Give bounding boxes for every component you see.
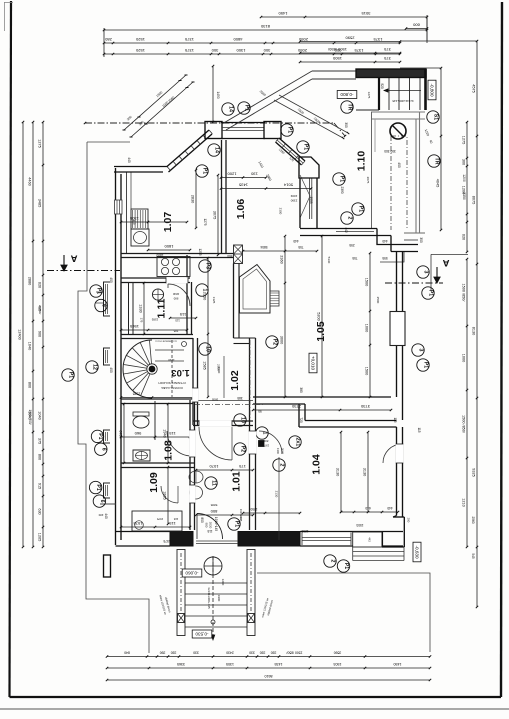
svg-text:115: 115 [175,319,180,323]
svg-text:3730: 3730 [360,404,370,409]
svg-text:1200: 1200 [462,174,466,182]
svg-text:375: 375 [383,56,390,61]
svg-text:1275: 1275 [38,139,42,147]
svg-text:300: 300 [462,159,466,165]
dim chain [243,250,317,252]
svg-text:960: 960 [134,431,141,436]
svg-text:800: 800 [210,509,217,514]
svg-text:P1: P1 [96,288,102,294]
svg-text:P1: P1 [303,144,309,150]
svg-text:115: 115 [169,521,176,526]
svg-text:4800: 4800 [233,37,243,42]
corner pier pentagon [299,157,319,178]
svg-text:1.05: 1.05 [315,321,327,342]
svg-text:9325: 9325 [472,468,476,476]
svg-text:3: 3 [418,349,424,352]
svg-text:1450: 1450 [394,662,402,666]
dim chain [121,397,193,399]
bay window top wall [221,122,265,124]
svg-text:1300: 1300 [236,48,246,53]
dim chain [123,404,125,463]
svg-text:755: 755 [298,245,304,249]
svg-text:600: 600 [412,23,419,28]
svg-text:2390: 2390 [290,199,297,203]
svg-text:1040: 1040 [38,411,42,419]
wall 1.07/1.06 vertical [221,140,223,253]
bottom-left corner walls (1.09) [116,531,171,533]
washer circle [152,289,163,300]
svg-text:P1: P1 [423,362,429,368]
svg-text:1275: 1275 [203,218,207,225]
svg-text:P1: P1 [95,484,101,490]
left wall window [115,200,123,214]
dim chain [121,329,187,331]
entrance stair right rail [247,550,255,636]
svg-text:300: 300 [211,48,218,53]
1.05 bottom wall [253,396,391,398]
svg-text:115 43828628 571151: 115 43828628 571151 [154,340,176,342]
svg-text:300: 300 [263,48,270,53]
svg-text:1.11: 1.11 [156,298,168,318]
svg-text:440: 440 [382,239,388,243]
svg-text:4575: 4575 [472,84,476,92]
svg-text:11: 11 [211,480,217,486]
dim chain [196,514,253,516]
svg-text:840: 840 [124,651,130,655]
svg-text:1.02: 1.02 [229,370,241,391]
window in bottom wall 1.04 [302,533,351,546]
svg-text:8075: 8075 [472,196,476,204]
kitchen inner wall face [126,172,128,253]
svg-text:1503: 1503 [334,662,342,666]
svg-text:330: 330 [271,651,277,655]
svg-text:-0,530: -0,530 [195,631,208,636]
dim chain [261,16,427,18]
svg-text:1450: 1450 [216,91,220,98]
wall 1.07 bottom / 1.02 top [121,253,234,255]
svg-text:P1: P1 [339,176,345,182]
svg-text:1200: 1200 [227,172,237,177]
svg-text:5330: 5330 [327,257,331,264]
svg-text:440: 440 [104,513,108,519]
svg-text:442: 442 [344,227,348,233]
svg-text:TR: TR [434,158,440,165]
svg-text:2500: 2500 [376,297,380,304]
svg-text:1575: 1575 [133,521,143,526]
dim chain [148,249,190,251]
svg-text:1255: 1255 [198,248,202,255]
svg-text:A: A [70,253,77,264]
door 1.01 to 1.04 [259,431,282,454]
glazed wall below pier [309,178,311,219]
door in 1.04 right [383,444,402,463]
svg-text:6: 6 [101,304,107,307]
svg-text:1.10: 1.10 [356,151,368,172]
svg-text:1900: 1900 [217,595,221,602]
svg-text:380: 380 [299,387,303,393]
svg-text:115: 115 [132,219,136,224]
svg-text:2430: 2430 [226,651,234,655]
level -0.060 [182,569,202,577]
svg-text:1.01: 1.01 [231,471,243,492]
svg-text:12: 12 [92,364,98,370]
svg-text:4045: 4045 [436,179,440,187]
fireplace flue block hatched [270,291,279,306]
svg-text:A: A [442,257,449,268]
stairs top-right treads [388,78,390,110]
dim chain [107,656,430,658]
svg-text:1000: 1000 [462,354,466,362]
svg-text:442: 442 [368,537,372,542]
svg-text:1985 /700/: 1985 /700/ [28,409,32,424]
svg-text:1800: 1800 [156,253,163,257]
dim chain [406,28,427,30]
svg-text:440: 440 [127,157,131,163]
svg-text:1250: 1250 [250,507,257,511]
svg-text:300: 300 [419,237,423,243]
svg-text:115: 115 [173,517,178,521]
page border right [501,2,502,697]
svg-text:915: 915 [38,483,42,489]
svg-text:1003: 1003 [290,194,297,198]
svg-text:1375: 1375 [184,48,194,53]
svg-text:5200: 5200 [317,312,321,320]
kitchen counter edge [130,172,132,209]
svg-text:800: 800 [38,454,42,460]
svg-text:1250: 1250 [301,529,308,533]
svg-text:1.06: 1.06 [235,199,247,220]
svg-text:1970: 1970 [262,444,269,448]
svg-text:115: 115 [207,529,212,533]
dim chain [221,188,311,190]
svg-text:2030: 2030 [217,364,221,371]
dim chain [170,317,196,319]
dim chain [207,258,209,397]
dim chain [196,469,253,471]
house right wall [396,252,398,398]
dim chain [253,409,391,411]
svg-text:1435: 1435 [238,183,248,188]
svg-text:2050: 2050 [297,48,307,53]
dim chain [167,404,169,463]
svg-text:2075: 2075 [366,177,370,184]
svg-text:1070: 1070 [209,464,219,469]
svg-text:385: 385 [237,396,243,400]
terrace outline bottom-right [257,573,430,652]
svg-text:+0,010: +0,010 [310,356,315,371]
svg-text:300: 300 [344,122,348,128]
exterior wall diagonal NW with window [167,130,209,167]
left wall pier SW [104,555,111,577]
diagonal dim chain NW [124,75,186,130]
door arc 1.11 [168,284,190,306]
svg-text:400: 400 [109,367,113,373]
svg-text:1375: 1375 [184,37,194,42]
section dash-dot line top [85,122,334,124]
svg-text:2350: 2350 [462,192,466,200]
svg-text:3060: 3060 [281,448,285,455]
dim chain [195,170,197,228]
svg-text:880: 880 [173,297,178,301]
svg-text:920: 920 [380,83,384,89]
dim chain [340,432,342,512]
svg-text:14: 14 [228,106,234,112]
porch roof dash-dot [391,136,407,230]
dim chain [104,42,400,44]
svg-text:3365: 3365 [177,662,185,666]
wall 1.09/1.01 [189,467,191,530]
dim chain [440,68,442,230]
svg-text:1.03: 1.03 [171,367,190,378]
level -0.530 [192,630,212,638]
stove 4 burners [157,257,190,277]
svg-text:P2: P2 [240,446,246,452]
svg-text:10: 10 [240,417,246,423]
svg-text:330: 330 [171,651,177,655]
dim chain [121,221,187,223]
svg-text:280: 280 [104,37,111,42]
dim chain [300,41,400,43]
svg-text:8130: 8130 [260,24,270,29]
svg-text:330: 330 [193,651,199,655]
dim chain [369,253,371,397]
svg-text:2130: 2130 [275,491,279,498]
svg-text:-0,800: -0,800 [340,92,353,97]
dim chain [300,61,400,63]
svg-text:900: 900 [205,523,209,528]
dim chain [107,667,430,669]
svg-text:2830: 2830 [191,195,195,203]
svg-text:2360: 2360 [280,255,284,263]
kitchen counter hatched [131,209,148,229]
svg-text:1275: 1275 [462,136,466,144]
svg-text:4840: 4840 [172,292,179,296]
svg-text:965: 965 [227,254,233,258]
svg-text:2390: 2390 [340,186,344,193]
svg-text:2020: 2020 [209,522,213,529]
svg-text:3: 3 [423,271,429,274]
bay right pier [264,122,281,139]
svg-text:330: 330 [249,651,255,655]
svg-text:90: 90 [258,409,262,413]
svg-text:P1: P1 [287,127,293,133]
svg-text:1615+145: 1615+145 [239,509,243,522]
entrance treads [185,582,247,584]
svg-text:3075: 3075 [213,211,217,219]
svg-text:115: 115 [393,417,397,422]
svg-text:1040: 1040 [28,342,32,350]
svg-text:1500 /850/: 1500 /850/ [286,651,302,655]
svg-text:1305: 1305 [226,662,234,666]
wall 1.01/1.04 [249,425,251,530]
svg-text:P1: P1 [244,105,250,111]
dim chain [466,259,468,547]
level -0.800 v [428,80,436,100]
level -0.800 [337,91,357,99]
svg-text:390: 390 [160,651,166,655]
dim chain [121,526,190,528]
svg-text:P2: P2 [272,339,278,345]
svg-text:290: 290 [407,518,411,523]
dim chain [42,122,44,547]
svg-text:545: 545 [471,553,475,559]
small wall in 1.08 [154,401,156,440]
svg-text:2: 2 [279,464,285,467]
washbasin [133,450,150,461]
pier left of entrance [170,532,193,547]
svg-text:1520: 1520 [135,37,145,42]
svg-text:130: 130 [250,172,257,177]
svg-text:785: 785 [173,329,178,333]
entrance center line [212,556,214,640]
svg-text:1435: 1435 [275,662,283,666]
wall 1.03/1.02 [192,338,194,425]
dim chain [221,177,266,179]
svg-text:14: 14 [214,147,220,153]
toilet [133,416,149,428]
1.05/porch step wall [377,229,418,245]
stair block top wall [356,69,426,78]
dim chain [143,283,145,334]
svg-text:675: 675 [119,430,123,436]
svg-text:4460: 4460 [28,177,32,185]
corridor axis dash-dot [249,340,251,420]
svg-text:1500 /850/: 1500 /850/ [462,284,466,303]
svg-text:2335: 2335 [133,392,141,396]
dim chain [243,512,300,514]
svg-text:1330: 1330 [139,304,143,312]
1.05 top wall [300,228,377,230]
svg-text:400: 400 [109,277,113,283]
1.04 top wall [305,420,397,422]
svg-text:8130: 8130 [472,327,476,335]
svg-text:620: 620 [38,282,42,288]
vertical dim 1450 above bay [212,66,214,122]
page border left [10,1,12,697]
right wall french window [390,312,405,346]
bay left pier [205,122,222,139]
svg-text:720: 720 [299,417,303,423]
dim chain [367,432,369,512]
SE exterior steps [353,551,404,553]
dim chain [22,122,24,547]
svg-text:1500: 1500 [365,367,369,375]
stair arrow [384,90,421,92]
wall 1.02/1.01 lower vertical [249,338,251,425]
svg-text:3x141x300+145: 3x141x300+145 [207,587,211,609]
door 1.02/1.01 arc [199,427,232,460]
svg-text:1910+145: 1910+145 [214,517,218,531]
svg-text:1325: 1325 [212,297,216,304]
svg-text:-0,630: -0,630 [414,545,419,558]
svg-text:5804: 5804 [260,245,267,249]
svg-text:VYTAPENI SCHODY: VYTAPENI SCHODY [158,381,186,385]
wall 1.11/1.03 [121,334,193,336]
svg-text:1265: 1265 [38,533,42,541]
svg-text:3590: 3590 [334,651,342,655]
pier right of entrance [238,532,300,547]
svg-text:1: 1 [262,432,268,435]
svg-text:3015: 3015 [361,11,371,16]
svg-text:755: 755 [352,256,358,260]
entrance threshold [196,540,238,542]
svg-text:3130: 3130 [363,468,367,476]
dim chain [32,122,34,547]
wall right of 1.11 [186,255,188,334]
wall 1.08/1.09 [121,462,194,464]
svg-text:2300: 2300 [279,208,283,215]
svg-text:1865: 1865 [163,491,167,499]
svg-text:1200: 1200 [221,579,225,586]
svg-text:2350: 2350 [203,292,207,300]
porch 1.10 right wall [415,119,417,233]
exterior wall left [115,168,117,545]
svg-text:1275: 1275 [367,92,371,99]
svg-text:300 300: 300 300 [384,149,396,153]
svg-text:1800: 1800 [164,244,174,249]
wall 1.02/1.01 horizontal [193,420,253,422]
svg-text:P1: P1 [234,521,240,527]
wall 1.08 top (under 1.03) [121,398,193,400]
dim chain [217,175,219,255]
svg-text:900: 900 [38,331,42,337]
upper mass outline diagonal [222,71,312,124]
svg-text:TR: TR [347,104,353,111]
svg-text:1940: 1940 [163,429,167,437]
svg-text:1500: 1500 [365,278,369,286]
svg-text:800: 800 [28,382,32,388]
fireplace [240,265,271,314]
wall 1.02/1.05 upper (chimney line) [233,264,235,339]
svg-text:1000: 1000 [365,324,369,332]
svg-text:8610: 8610 [265,674,273,678]
svg-text:2x1: 2x1 [295,438,301,447]
kitchen sink [131,229,149,246]
svg-text:3x141x300+145: 3x141x300+145 [392,99,414,103]
svg-text:1575: 1575 [156,517,163,521]
porch 1.10 left edge [371,112,373,228]
exterior wall top-left (kitchen) [114,166,168,168]
svg-text:P1: P1 [343,563,349,569]
svg-text:175: 175 [238,464,245,469]
svg-text:330: 330 [260,651,266,655]
level +0.010 [309,353,317,373]
svg-text:1450: 1450 [278,11,288,16]
svg-text:-0,800: -0,800 [429,83,434,96]
svg-text:280: 280 [98,513,103,517]
svg-text:595: 595 [382,256,388,260]
porch SE steps [404,232,425,234]
dim chain [466,122,468,252]
svg-text:295: 295 [349,243,355,247]
svg-text:12400: 12400 [18,329,22,340]
svg-text:115: 115 [179,312,186,317]
door opening SE with landing [353,532,382,547]
svg-text:1500 /850/: 1500 /850/ [462,415,466,434]
svg-text:440: 440 [293,239,299,243]
dim chain [321,236,323,397]
chimney flues [234,245,243,264]
wall 1.07/1.11 [121,277,190,279]
svg-text:1565: 1565 [129,324,139,329]
svg-text:175: 175 [140,318,144,323]
page border bottom [10,696,502,698]
svg-text:6: 6 [99,500,105,503]
svg-text:2: 2 [330,560,336,563]
svg-text:P1: P1 [428,290,434,296]
level circle above entrance [204,557,222,575]
svg-text:800: 800 [263,439,268,443]
